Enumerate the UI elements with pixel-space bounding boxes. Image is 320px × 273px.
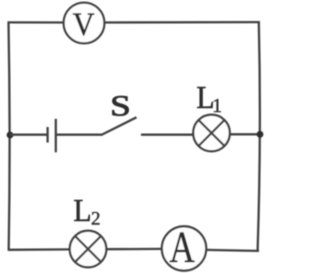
lamp L1 (193, 115, 230, 152)
svg-text:V: V (73, 6, 95, 42)
wire middle from left node to battery (10, 134, 47, 136)
svg-text:S: S (110, 90, 131, 123)
wire top horizontal right of voltmeter (104, 21, 260, 24)
wire ammeter to bottom right corner (206, 250, 259, 251)
voltmeter V (64, 3, 105, 44)
wire right vertical (258, 22, 260, 251)
label L2 (73, 192, 100, 229)
svg-text:2: 2 (91, 209, 101, 230)
switch S blade (102, 117, 137, 135)
svg-text:1: 1 (212, 95, 222, 117)
battery cell (48, 119, 56, 153)
wire lamp L1 to right node (230, 133, 260, 135)
lamp L2 (70, 231, 107, 268)
label S (110, 90, 131, 123)
wire battery to switch (56, 134, 102, 136)
wire left vertical (9, 23, 10, 251)
wire bottom horizontal left of lamp L2 (8, 248, 70, 251)
wire lamp L2 to ammeter (106, 248, 162, 251)
svg-text:L: L (73, 192, 91, 228)
label L1 (196, 79, 222, 117)
wire switch to lamp L1 (141, 134, 193, 136)
svg-text:A: A (169, 222, 195, 272)
ammeter A (162, 222, 206, 272)
junction node left (7, 132, 14, 139)
wire top horizontal left of voltmeter (8, 21, 65, 23)
junction node right (257, 131, 264, 138)
